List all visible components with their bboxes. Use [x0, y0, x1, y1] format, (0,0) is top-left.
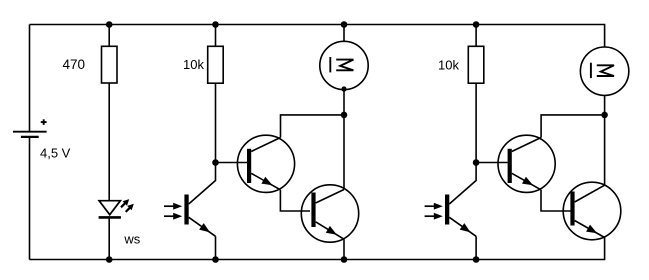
node D junction dot [601, 112, 608, 119]
wire Q1 collector to motor line [281, 115, 345, 138]
wire Q1 emitter to Q2 base [280, 190, 310, 211]
battery 4,5 V [13, 119, 71, 160]
junction dot bottom rail T2 [473, 256, 480, 263]
svg-text:470: 470 [62, 57, 85, 72]
svg-text:4,5 V: 4,5 V [40, 145, 71, 160]
wire bottom rail [30, 238, 605, 260]
transistor Q2 [301, 185, 358, 242]
junction dot bottom rail T1 [212, 256, 219, 263]
wire resistor470 to LED [108, 83, 110, 201]
LED D1 ws [99, 199, 141, 246]
wire battery left leg [29, 25, 31, 260]
transistor Q3 [498, 135, 555, 192]
wire Q3 collector to motor line [541, 115, 605, 138]
wire T1 emitter to bottom rail [215, 236, 217, 259]
junction dot top rail R2 [212, 21, 219, 28]
resistor R2 10k [183, 25, 223, 84]
motor M2 [580, 47, 628, 95]
wire Q4 collector to motor M2 [604, 95, 606, 185]
phototransistor T1 [164, 195, 216, 237]
wire Q2 collector to motor M1 [343, 90, 345, 190]
svg-text:ws: ws [123, 231, 140, 246]
junction dot top rail R3 [473, 21, 480, 28]
phototransistor T2 [425, 195, 477, 237]
wire node A to phototransistor collector [189, 163, 216, 205]
junction dot top rail R1 [106, 21, 113, 28]
transistor Q1 [237, 135, 294, 192]
wire R3 to node C [475, 83, 477, 162]
svg-text:10k: 10k [438, 57, 459, 72]
wire LED to bottom rail [108, 217, 110, 259]
node C junction dot [473, 159, 480, 166]
resistor R3 10k [438, 25, 484, 84]
node B junction dot [341, 112, 348, 119]
svg-text:10k: 10k [183, 57, 204, 72]
wire node A to Q1 base [216, 162, 248, 164]
motor M1 [320, 41, 368, 91]
wire node C to phototransistor T2 collector [449, 163, 476, 205]
node A junction dot [212, 159, 219, 166]
wire top rail [30, 25, 605, 48]
wire Q2 emitter to bottom rail [343, 239, 345, 259]
wire T2 emitter to bottom rail [475, 236, 477, 259]
wire motor M1 to top rail [343, 25, 345, 42]
resistor 470 [62, 25, 117, 84]
junction dot bottom rail LED [106, 256, 113, 263]
junction dot top rail M1 [341, 21, 348, 28]
junction dot bottom rail Q2 [341, 256, 348, 263]
transistor Q4 [563, 182, 621, 240]
wire Q3 emitter to Q4 base [541, 190, 571, 211]
wire R2 to node A [215, 83, 217, 162]
wire node C to Q3 base [476, 162, 508, 164]
